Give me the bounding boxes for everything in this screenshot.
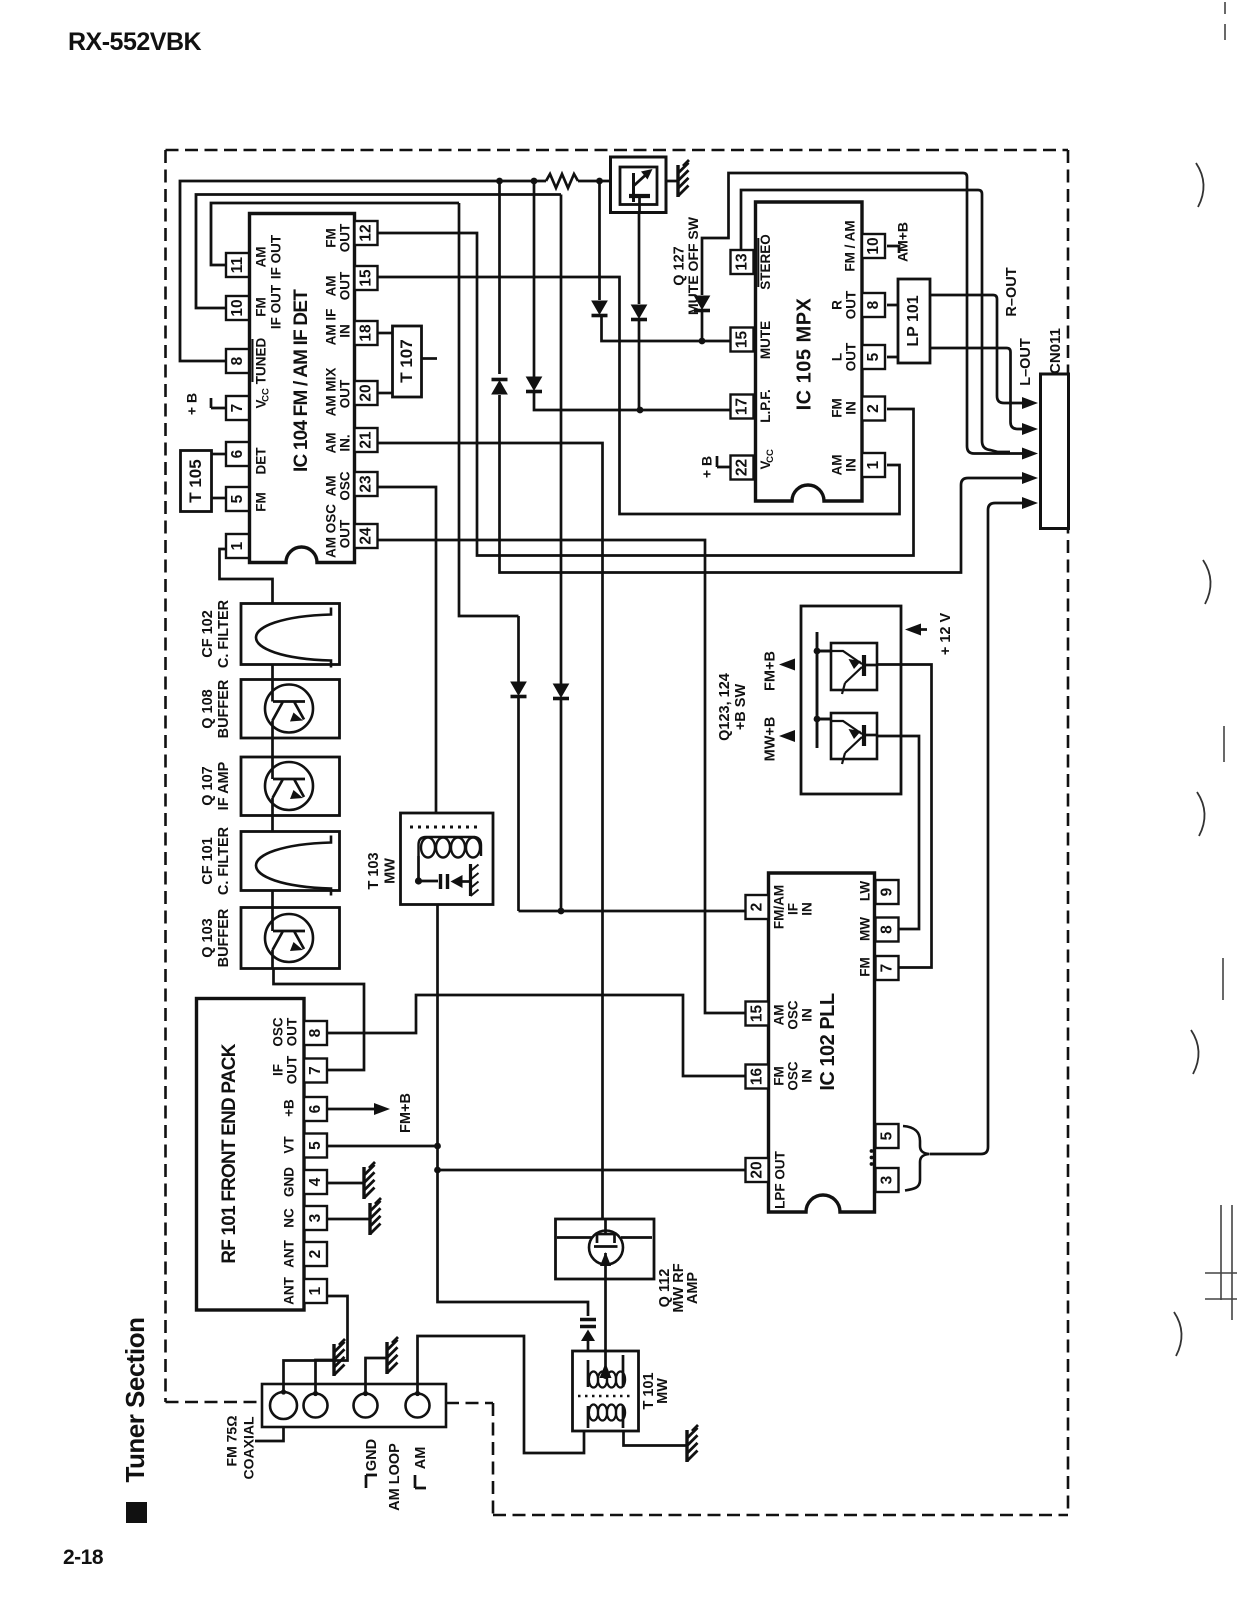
- junction TUNED rail / D1 line: [596, 178, 603, 185]
- junction Q123 base bus lower: [814, 716, 821, 723]
- svg-text:OSC: OSC: [271, 1017, 286, 1047]
- pin IC104 pin 20: [355, 381, 378, 405]
- svg-text:AM MIX: AM MIX: [324, 368, 339, 417]
- capacitor above T101: [580, 1320, 596, 1327]
- pin IC104 pin 18: [355, 321, 378, 345]
- svg-text:BUFFER: BUFFER: [216, 908, 232, 967]
- wire AM OSC net: IC104 pin23 to T103 top: [378, 487, 437, 813]
- pin IC104 pin 5: [226, 487, 249, 511]
- wire Q123 internal base bus: [817, 632, 831, 748]
- svg-text:FM: FM: [830, 398, 845, 418]
- junction VT line / tuning bus: [434, 1143, 441, 1150]
- pin IC105 pin 15: [731, 328, 754, 352]
- arrowhead FM+B from Q123: [779, 659, 795, 671]
- svg-text:2: 2: [307, 1250, 324, 1259]
- svg-text:20: 20: [748, 1161, 765, 1178]
- wire Q123 MW+B switch output to IC102 pin8 MW: [877, 736, 919, 929]
- svg-text:L–OUT: L–OUT: [1018, 338, 1034, 386]
- ceramic filter CF102 box: [241, 604, 340, 665]
- transformer T105 box: [181, 451, 212, 512]
- wire AM IF OUT drop and jog to diode D5: [459, 203, 519, 911]
- svg-text:LP 101: LP 101: [905, 295, 922, 346]
- svg-text:3: 3: [878, 1175, 895, 1184]
- transistor Q123 box: [831, 643, 877, 690]
- svg-text:5: 5: [307, 1141, 324, 1150]
- brace at IC102 pins 5 and 3: [903, 1126, 930, 1191]
- pin IC104 pin 15: [355, 266, 378, 290]
- junction T103 coil tap: [415, 877, 422, 884]
- pin RF101 pin 8: [304, 1021, 327, 1045]
- capacitor in T103: [441, 874, 448, 889]
- svg-text:IN: IN: [338, 324, 353, 338]
- wire IC104 pin20 to T107: [378, 392, 393, 395]
- svg-text:OUT: OUT: [338, 379, 353, 408]
- svg-text:1: 1: [229, 541, 246, 550]
- transistor Q127 inner box: [620, 167, 657, 205]
- arrowhead CN011 +B: [1022, 472, 1038, 484]
- arrowhead at T101 coil tap: [600, 1366, 612, 1380]
- svg-text:STEREO: STEREO: [758, 234, 773, 290]
- pin IC102 pin 2: [746, 895, 769, 919]
- svg-text:Q 103: Q 103: [200, 918, 216, 958]
- svg-text:TUNED: TUNED: [254, 338, 269, 385]
- svg-text:AMP: AMP: [685, 1272, 701, 1305]
- wire AM OUT: IC104 pin15 to IC105 pin1 AM IN: [378, 277, 900, 514]
- pin IC102 pin 3: [876, 1168, 899, 1192]
- svg-text:13: 13: [733, 253, 750, 271]
- wire L.P.F.: IC105 pin17 rail with diode D5u and Q127 collector: [534, 181, 731, 410]
- svg-text:8: 8: [307, 1028, 324, 1037]
- svg-text:CF 102: CF 102: [200, 610, 216, 658]
- svg-text:OSC: OSC: [786, 1000, 801, 1030]
- pin RF101 pin 1: [304, 1279, 327, 1303]
- svg-text:OUT: OUT: [338, 271, 353, 300]
- svg-text:7: 7: [878, 964, 895, 973]
- wire IC104 pin1 to CF102: [220, 549, 273, 604]
- svg-text:AM+B: AM+B: [895, 222, 911, 262]
- +12 V supply arrow: [911, 628, 927, 631]
- ceramic filter CF101 box: [241, 832, 340, 891]
- wire FM/AM IF IN into IC102 pin2: [519, 910, 746, 913]
- IF amp Q107 box: [241, 757, 340, 816]
- svg-text:CC: CC: [261, 388, 272, 402]
- diode D6 (FM IF to PLL): [554, 684, 569, 697]
- IC104 FM/AM IF DET body: [250, 214, 355, 563]
- +B switch Q123/Q124 outer box: [801, 606, 901, 794]
- diode D3 (mute off switch): [695, 296, 710, 309]
- svg-text:MUTE: MUTE: [758, 321, 773, 359]
- wire T107 stub: [422, 357, 438, 360]
- svg-text:23: 23: [357, 475, 374, 493]
- ceramic filter CF101 response curve: [256, 836, 331, 896]
- svg-text:R: R: [830, 300, 845, 310]
- transformer T103 box: [401, 813, 494, 905]
- svg-text:FM: FM: [324, 228, 339, 248]
- svg-text:IN: IN: [844, 458, 859, 472]
- svg-text:OUT: OUT: [285, 1017, 300, 1046]
- low-pass filter LP101 box: [898, 279, 930, 363]
- dashed enclosure border top: [166, 149, 1069, 152]
- ground at GND terminal: [332, 1344, 335, 1376]
- RF101 front end pack body: [197, 999, 305, 1311]
- dashed enclosure border bottom: [493, 1514, 1068, 1517]
- svg-text:RX-552VBK: RX-552VBK: [68, 28, 201, 56]
- svg-text:FM+B: FM+B: [398, 1093, 414, 1133]
- wire AM antenna: terminal 4 to T101 primary: [418, 1336, 585, 1453]
- ground at RF101 pin3: [368, 1203, 371, 1235]
- svg-text:6: 6: [229, 449, 246, 458]
- wire Q112 source to T101 coil tap: [604, 1279, 607, 1371]
- arrowhead at T101 coil tap (inside box): [600, 1363, 612, 1378]
- svg-text:+ 12 V: + 12 V: [938, 613, 954, 656]
- pin IC102 pin 9: [876, 880, 899, 904]
- transformer T101 box: [573, 1351, 639, 1431]
- svg-text:10: 10: [865, 237, 882, 254]
- pin RF101 pin 2: [304, 1242, 327, 1266]
- svg-text:2: 2: [865, 404, 882, 413]
- diode D1 (TUNED rail to MUTE rail): [592, 301, 607, 314]
- svg-text:IC 102 PLL: IC 102 PLL: [817, 993, 839, 1091]
- bracket mark for GND: [366, 1475, 377, 1488]
- wire Q108 to Q107: [271, 738, 274, 757]
- svg-text:Q 108: Q 108: [200, 689, 216, 729]
- dashed enclosure border bottom-left notch: [166, 1402, 494, 1515]
- dashed enclosure border right: [1067, 150, 1070, 1515]
- arrowhead CN011 stereo/mute: [1022, 448, 1038, 460]
- svg-text:GND: GND: [364, 1439, 380, 1471]
- svg-text:DET: DET: [254, 447, 269, 475]
- junction IF IN wire / FM IF line: [558, 908, 565, 915]
- buffer Q103 box: [241, 908, 340, 969]
- pin IC102 pin 7: [876, 956, 899, 980]
- pin IC102 pin 15: [746, 1002, 769, 1026]
- wire Q127 emitter to chassis: [657, 180, 678, 183]
- pin IC102 pin 5: [876, 1124, 899, 1148]
- svg-text:5: 5: [229, 494, 246, 503]
- wire FM+B arrow at RF101 pin6: [328, 1108, 379, 1111]
- transistor Q107 symbol: [265, 762, 313, 810]
- pin IC104 pin 8: [226, 349, 249, 373]
- wire Q107 to CF101: [271, 816, 274, 832]
- wire FM IF OUT vertical through diode D6 to IC102 IF IN junction: [560, 195, 563, 912]
- connector CN011 body: [1041, 374, 1069, 529]
- svg-text:IN: IN: [844, 401, 859, 415]
- svg-text:7: 7: [229, 404, 246, 413]
- wire LPF OUT: IC102 pin20 to tuning line: [438, 1169, 746, 1172]
- svg-text:IN: IN: [800, 902, 815, 916]
- svg-text:2-18: 2-18: [63, 1546, 104, 1569]
- pin IC102 pin 20: [746, 1158, 769, 1182]
- svg-text:IN: IN: [800, 1069, 815, 1083]
- svg-text:MW+B: MW+B: [762, 717, 778, 762]
- transistor Q127 emitter arrowhead: [641, 169, 653, 180]
- svg-text:Q123, 124: Q123, 124: [717, 673, 733, 741]
- svg-text:C. FILTER: C. FILTER: [216, 599, 232, 668]
- svg-text:IF OUT: IF OUT: [269, 284, 284, 329]
- svg-text:FM: FM: [772, 1066, 787, 1086]
- buffer Q108 box: [241, 680, 340, 739]
- wire RF101 pin3 to chassis: [328, 1218, 371, 1221]
- diode D2 (Q127 collector): [632, 305, 647, 318]
- wire RF101 pin1 to FM antenna terminal: [284, 1296, 348, 1394]
- svg-text:OUT: OUT: [844, 290, 859, 319]
- transformer T101 primary coil: [588, 1355, 623, 1387]
- svg-text:T 103: T 103: [366, 852, 382, 889]
- svg-text:Q 107: Q 107: [200, 766, 216, 806]
- pin RF101 pin 3: [304, 1206, 327, 1230]
- svg-text:FM: FM: [254, 492, 269, 512]
- wire diode D1 from TUNED rail: [598, 181, 601, 300]
- wire +B feed through diode D4 to CN011 arrow4: [500, 181, 1033, 573]
- svg-text:8: 8: [229, 356, 246, 365]
- MOSFET Q112 source arrowhead: [600, 1252, 611, 1266]
- svg-text:20: 20: [357, 384, 374, 401]
- pin IC105 pin 13: [731, 250, 754, 274]
- svg-text:AM IF: AM IF: [324, 309, 339, 346]
- pin RF101 pin 4: [304, 1170, 327, 1194]
- svg-text:LPF OUT: LPF OUT: [773, 1150, 788, 1208]
- svg-text:AM: AM: [413, 1447, 429, 1470]
- svg-text:AM: AM: [772, 1005, 787, 1026]
- pin IC104 pin 21: [355, 428, 378, 452]
- svg-text:10: 10: [229, 299, 246, 316]
- svg-text:L.P.F.: L.P.F.: [758, 389, 773, 423]
- arrowhead +12V into Q123: [905, 624, 921, 636]
- wire Q123 FM+B switch output to IC102 pin7 FM: [877, 665, 932, 968]
- svg-text:AM: AM: [324, 433, 339, 454]
- svg-text:11: 11: [229, 256, 246, 273]
- svg-text:OSC: OSC: [338, 471, 353, 501]
- wire AM OSC OUT: IC104 pin24 to IC102 pin15 AM OSC IN: [378, 540, 746, 1013]
- svg-text:T 107: T 107: [397, 339, 416, 382]
- svg-text:LW: LW: [858, 881, 873, 902]
- svg-text:C. FILTER: C. FILTER: [216, 826, 232, 895]
- junction Q123 base bus upper: [814, 648, 821, 655]
- svg-text:CC: CC: [765, 449, 776, 463]
- pin IC105 pin 1: [862, 453, 885, 477]
- junction TUNED rail / D4 line: [496, 178, 503, 185]
- svg-text:FM: FM: [858, 957, 873, 977]
- transistor Q127 outer shield box: [611, 157, 667, 213]
- scan artifact arcs right edge: [1196, 163, 1204, 207]
- GND terminal: [304, 1394, 328, 1418]
- AM terminal: [406, 1394, 430, 1418]
- transistor Q127 emitter bar: [629, 194, 650, 198]
- svg-text:AM: AM: [830, 455, 845, 476]
- svg-text:AM: AM: [254, 247, 269, 268]
- wire IC104 pin5 to T105: [212, 497, 226, 500]
- svg-text:2: 2: [748, 903, 765, 912]
- svg-text:1: 1: [307, 1286, 324, 1295]
- varactor diode in T103: [451, 875, 463, 888]
- svg-text:12: 12: [357, 224, 374, 241]
- wire FM IF OUT: IC104 pin10 rail: [196, 195, 561, 309]
- pin RF101 pin 7: [304, 1059, 327, 1083]
- pin IC102 pin 8: [876, 918, 899, 942]
- pin IC105 pin 2: [862, 397, 885, 421]
- svg-text:AM LOOP: AM LOOP: [387, 1443, 403, 1511]
- svg-text:FM/AM: FM/AM: [772, 885, 787, 929]
- transistor Q108 symbol: [265, 685, 313, 733]
- pin IC102 pin 16: [746, 1065, 769, 1089]
- pin IC105 pin 17: [731, 395, 754, 419]
- ellipsis between IC102 pins 5 and 3: [870, 1149, 874, 1153]
- wire AM IN net: IC104 pin21 down to Q112 drain: [378, 443, 603, 1219]
- svg-text:21: 21: [357, 431, 374, 449]
- junction LPF OUT / tuning bus: [434, 1167, 441, 1174]
- pin RF101 pin 5: [304, 1134, 327, 1158]
- wire T103 secondary down to T101 coupling: [438, 905, 589, 1317]
- svg-text:5: 5: [865, 352, 882, 361]
- transistor Q123 symbol: [831, 651, 862, 664]
- svg-text:OUT: OUT: [844, 342, 859, 371]
- svg-text:MUTE OFF SW: MUTE OFF SW: [685, 216, 701, 315]
- svg-text:MW: MW: [858, 917, 873, 941]
- pin IC104 pin 7: [226, 396, 249, 420]
- svg-text:15: 15: [357, 269, 374, 287]
- svg-text:OUT: OUT: [338, 223, 353, 252]
- pin IC104 pin 6: [226, 442, 249, 466]
- svg-text:MW: MW: [382, 858, 398, 884]
- ground at Q127 emitter: [676, 165, 679, 197]
- FM coaxial terminal: [270, 1392, 297, 1419]
- svg-text:AM OSC: AM OSC: [324, 504, 339, 558]
- ground hatches in T103: [471, 865, 479, 897]
- pin IC104 pin 23: [355, 472, 378, 496]
- svg-text:IF: IF: [786, 903, 801, 915]
- svg-text:CN011: CN011: [1047, 328, 1064, 374]
- AM LOOP terminal: [354, 1394, 378, 1418]
- scan artifact marks top right: [1223, 2, 1225, 1000]
- wire VT: RF101 pin5 to tuning line: [328, 1145, 438, 1148]
- svg-text:8: 8: [865, 300, 882, 309]
- svg-text:+ B: + B: [184, 393, 200, 415]
- svg-text:3: 3: [307, 1213, 324, 1222]
- svg-text:IF OUT: IF OUT: [269, 234, 284, 279]
- svg-text:CF 101: CF 101: [200, 837, 216, 885]
- wire AM IF OUT: IC104 pin11 rail: [211, 203, 459, 265]
- svg-text:18: 18: [357, 324, 374, 342]
- svg-text:FM / AM: FM / AM: [843, 220, 858, 271]
- diode above T101: [581, 1330, 595, 1342]
- wire Q103 to RF101 pin7 IF OUT: [274, 969, 365, 1071]
- diode D5u (on LPF rail drop): [527, 377, 542, 390]
- ground bar in T103: [469, 864, 472, 896]
- svg-text:FM 75Ω: FM 75Ω: [224, 1416, 240, 1467]
- svg-text:FM: FM: [254, 297, 269, 317]
- svg-text:15: 15: [733, 331, 750, 349]
- svg-text:17: 17: [733, 398, 750, 415]
- arrowhead CN011 L-OUT: [1022, 423, 1038, 435]
- diode D4 (+B feed): [492, 381, 507, 394]
- scan artifact corner lines bottom right: [1205, 1205, 1237, 1320]
- wire +B stub at IC105 pin22: [717, 456, 731, 467]
- wire CF101 to Q103: [271, 891, 274, 908]
- wire Q123 internal base bus: [817, 632, 831, 748]
- svg-text:VT: VT: [282, 1136, 297, 1154]
- wire CF102 to Q108: [271, 665, 274, 680]
- transistor Q124 box: [831, 713, 877, 759]
- svg-text:R–OUT: R–OUT: [1004, 267, 1020, 316]
- svg-text:IF: IF: [271, 1064, 286, 1076]
- pin IC105 pin 10: [862, 234, 885, 258]
- MOSFET Q112 symbol: [589, 1231, 623, 1265]
- svg-text:COAXIAL: COAXIAL: [241, 1416, 257, 1479]
- svg-text:ANT: ANT: [282, 1239, 297, 1267]
- junction LPF rail / Q127 collector: [637, 407, 644, 414]
- svg-text:5: 5: [878, 1131, 895, 1140]
- wire L-OUT: LP101 to CN011: [887, 348, 1032, 429]
- wire band data brace to CN011 arrow5: [930, 503, 1032, 1154]
- svg-text:AM: AM: [324, 276, 339, 297]
- wire RF101 pin8 OSC OUT to IC102 pin16 FM OSC IN: [328, 995, 746, 1076]
- pin IC104 pin 1: [226, 534, 249, 558]
- svg-text:T 105: T 105: [186, 459, 205, 502]
- pin IC105 pin 8: [862, 293, 885, 317]
- transformer T101 secondary coil: [589, 1405, 598, 1421]
- pin IC105 pin 5: [862, 345, 885, 369]
- wire IC104 pin18 to T107: [378, 332, 393, 335]
- ground at T101 secondary: [685, 1430, 688, 1462]
- antenna terminal block: [262, 1384, 446, 1427]
- svg-text:9: 9: [878, 887, 895, 896]
- svg-text:22: 22: [733, 459, 750, 476]
- transformer T101 shield dotted line: [578, 1395, 633, 1398]
- svg-text:16: 16: [748, 1068, 765, 1086]
- svg-text:BUFFER: BUFFER: [216, 679, 232, 738]
- svg-text:AM: AM: [324, 476, 339, 497]
- wire FM coaxial stub at terminal 1: [255, 1421, 284, 1442]
- pin IC104 pin 10: [226, 296, 249, 320]
- svg-text:Tuner Section: Tuner Section: [120, 1318, 150, 1483]
- wire Q112 source into T101 coil (inside box): [604, 1351, 607, 1378]
- IC105 MPX body: [756, 202, 863, 501]
- svg-text:IN.: IN.: [338, 434, 353, 451]
- wire T101 secondary to chassis: [624, 1431, 688, 1446]
- wire mute diode D3 to IC105 pin15 MUTE rail: [602, 173, 1033, 454]
- svg-text:OUT: OUT: [338, 519, 353, 548]
- pin IC104 pin 11: [226, 253, 249, 277]
- svg-text:MW: MW: [655, 1378, 671, 1404]
- transistor Q127 symbol: [632, 173, 635, 202]
- wire risers inside antenna terminal block: [284, 1384, 418, 1394]
- transformer T103 tap line: [419, 856, 439, 881]
- svg-text:NC: NC: [282, 1208, 297, 1228]
- dashed enclosure border left: [164, 150, 167, 1402]
- svg-text:OUT: OUT: [285, 1055, 300, 1084]
- wire IC104 pin6 to T105: [212, 453, 226, 456]
- svg-text:FM+B: FM+B: [762, 651, 778, 691]
- junction dot at T101 coil top: [603, 1373, 609, 1379]
- svg-text:6: 6: [307, 1104, 324, 1113]
- ceramic filter CF102 response curve: [256, 608, 331, 668]
- svg-text:1: 1: [865, 460, 882, 469]
- wire terminal 3 AM LOOP to chassis: [366, 1358, 388, 1393]
- svg-text:15: 15: [748, 1005, 765, 1023]
- junction MUTE rail / D3 line: [699, 338, 706, 345]
- wire +B stub at IC104 pin7: [211, 398, 226, 408]
- pin RF101 pin 6: [304, 1097, 327, 1121]
- wire TUNED net: IC104 pin8 to Q127 base via top rail: [180, 181, 633, 361]
- arrowhead FM+B at RF101 pin6: [374, 1103, 390, 1115]
- wire terminal 2 GND to chassis: [316, 1360, 335, 1393]
- ground at RF101 pin4: [362, 1167, 365, 1199]
- svg-text:8: 8: [878, 925, 895, 934]
- svg-text:RF 101 FRONT END PACK: RF 101 FRONT END PACK: [219, 1043, 240, 1263]
- transformer T103 coil: [419, 837, 427, 856]
- svg-text:+B SW: +B SW: [733, 684, 749, 731]
- svg-text:OSC: OSC: [786, 1061, 801, 1091]
